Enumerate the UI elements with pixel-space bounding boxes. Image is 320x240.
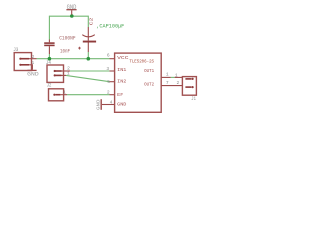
svg-text:C2: C2 [89, 17, 94, 25]
svg-text:IN2: IN2 [117, 79, 126, 85]
svg-text:GND: GND [27, 72, 39, 78]
svg-text:C100NF: C100NF [59, 36, 75, 42]
svg-text:OUT1: OUT1 [144, 68, 154, 74]
svg-text:2: 2 [107, 89, 110, 95]
svg-text:10nF: 10nF [60, 49, 70, 55]
svg-text:J3: J3 [13, 47, 18, 53]
svg-text:1: 1 [175, 72, 178, 78]
svg-text:1: 1 [67, 71, 70, 77]
svg-text:5: 5 [107, 79, 110, 85]
svg-text:IN1: IN1 [117, 67, 126, 73]
svg-text:2: 2 [32, 54, 35, 60]
svg-text:J2: J2 [47, 82, 52, 88]
svg-text:TLE5206-2S: TLE5206-2S [129, 58, 154, 64]
svg-text:6: 6 [107, 53, 110, 59]
svg-text:VCC: VCC [117, 55, 129, 61]
svg-text:,CAP100µF: ,CAP100µF [96, 24, 124, 30]
svg-text:J4: J4 [46, 60, 51, 66]
svg-text:2: 2 [67, 66, 70, 72]
svg-text:GND: GND [117, 102, 126, 108]
svg-text:1: 1 [166, 71, 169, 77]
svg-text:1: 1 [63, 90, 66, 96]
svg-text:3: 3 [106, 66, 109, 72]
svg-text:GND: GND [67, 4, 77, 11]
svg-text:1: 1 [32, 60, 35, 66]
svg-text:GND: GND [96, 99, 102, 110]
svg-text:2: 2 [177, 80, 180, 86]
svg-text:J1: J1 [191, 96, 196, 102]
svg-text:7: 7 [166, 80, 169, 86]
svg-text:EF: EF [117, 92, 123, 98]
svg-text:4: 4 [110, 100, 113, 106]
svg-text:OUT2: OUT2 [144, 81, 154, 87]
